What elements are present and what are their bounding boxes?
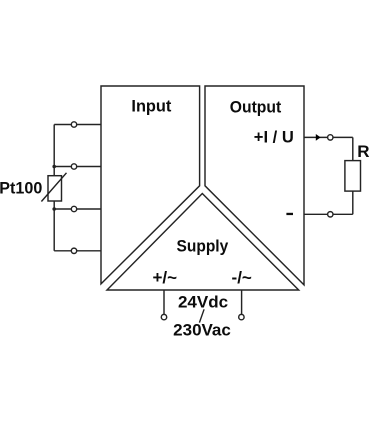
wire output vertical to load [352,137,354,214]
wire input terminal 1 horizontal [54,124,101,126]
wire input terminal 4 horizontal [54,250,101,252]
wire left vertical bus [53,125,55,251]
svg-text:24Vdc: 24Vdc [178,293,228,312]
resistor Pt100 diagonal stroke [41,173,66,202]
terminal circle output plus [328,135,333,140]
resistor R body [345,161,361,192]
terminal circle input 2 [71,164,76,169]
terminal circle output minus [328,212,333,217]
svg-text:+/~: +/~ [153,268,178,287]
output block [205,86,304,285]
label minus terminal [286,213,293,215]
supply block triangle [107,194,299,291]
slash between 24Vdc and 230Vac [199,309,204,322]
terminal circle supply left [161,314,166,319]
resistor Pt100 body [48,176,62,201]
wire supply stub right [241,290,243,314]
svg-text:Output: Output [230,97,282,116]
svg-text:R: R [357,142,369,161]
wire input terminal 2 horizontal [54,166,101,168]
arrow on +I/U wire [316,134,321,141]
wire input terminal 3 horizontal [54,208,101,210]
svg-text:Supply: Supply [177,236,229,255]
terminal circle input 3 [71,206,76,211]
svg-text:Input: Input [131,97,171,116]
junction dot B [52,207,56,211]
svg-text:Pt100: Pt100 [0,179,42,198]
svg-text:-/~: -/~ [232,268,252,287]
junction dot A [52,165,56,169]
terminal circle input 4 [71,248,76,253]
wire output +I/U horizontal [304,136,353,138]
input block [101,86,200,284]
wire supply stub left [163,290,165,314]
wire output minus horizontal [304,213,353,215]
terminal circle supply right [239,314,244,319]
svg-text:230Vac: 230Vac [173,321,231,340]
svg-text:+I / U: +I / U [254,128,294,147]
terminal circle input 1 [71,122,76,127]
